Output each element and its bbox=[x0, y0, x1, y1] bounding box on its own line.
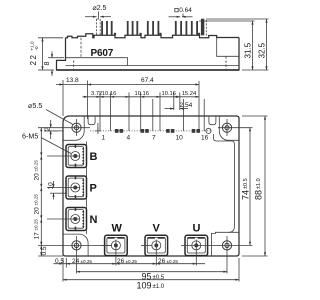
svg-text:8: 8 bbox=[44, 62, 51, 66]
svg-text:7: 7 bbox=[152, 135, 156, 142]
svg-text:2.54: 2.54 bbox=[180, 102, 193, 109]
svg-text:-0: -0 bbox=[34, 46, 39, 51]
svg-text:±0.5: ±0.5 bbox=[243, 178, 249, 189]
svg-text:±0.25: ±0.25 bbox=[34, 219, 39, 231]
svg-text:±1.0: ±1.0 bbox=[256, 178, 262, 189]
svg-text:10.16: 10.16 bbox=[102, 91, 117, 97]
svg-text:2: 2 bbox=[44, 127, 51, 131]
svg-text:0.64: 0.64 bbox=[179, 7, 192, 14]
svg-text:P607: P607 bbox=[91, 48, 114, 59]
svg-text:P: P bbox=[90, 183, 97, 195]
svg-text:±1.0: ±1.0 bbox=[153, 284, 165, 290]
svg-text:10: 10 bbox=[47, 182, 54, 190]
svg-text:17: 17 bbox=[34, 232, 41, 240]
svg-text:±0.25: ±0.25 bbox=[34, 160, 39, 172]
svg-text:16: 16 bbox=[201, 135, 209, 142]
svg-text:26: 26 bbox=[158, 258, 166, 265]
svg-text:67.4: 67.4 bbox=[141, 77, 154, 84]
svg-text:20: 20 bbox=[34, 173, 41, 181]
svg-text:±0.25: ±0.25 bbox=[81, 259, 93, 264]
svg-text:U: U bbox=[193, 223, 201, 235]
svg-text:10: 10 bbox=[176, 135, 184, 142]
svg-text:±0.25: ±0.25 bbox=[34, 194, 39, 206]
svg-text:24: 24 bbox=[72, 258, 80, 265]
svg-text:20: 20 bbox=[34, 207, 41, 215]
svg-text:109: 109 bbox=[137, 281, 152, 291]
svg-text:13.8: 13.8 bbox=[66, 77, 79, 84]
svg-text:±0.25: ±0.25 bbox=[126, 259, 138, 264]
svg-text:32.5: 32.5 bbox=[258, 42, 267, 58]
svg-text:15.24: 15.24 bbox=[182, 91, 197, 97]
svg-text:V: V bbox=[153, 223, 161, 235]
svg-text:26: 26 bbox=[117, 258, 125, 265]
svg-text:74: 74 bbox=[241, 190, 251, 200]
svg-text:88: 88 bbox=[253, 190, 263, 200]
svg-text:1: 1 bbox=[102, 135, 106, 142]
svg-text:4: 4 bbox=[127, 135, 131, 142]
svg-text:W: W bbox=[112, 223, 123, 235]
svg-text:⌀5.5: ⌀5.5 bbox=[28, 101, 42, 110]
svg-text:22: 22 bbox=[29, 54, 38, 66]
svg-text:B: B bbox=[90, 151, 98, 163]
svg-text:6-M5: 6-M5 bbox=[22, 132, 38, 141]
svg-text:±0.25: ±0.25 bbox=[167, 259, 179, 264]
svg-text:3.72: 3.72 bbox=[91, 91, 102, 97]
svg-text:0.5: 0.5 bbox=[41, 246, 48, 255]
svg-text:10.16: 10.16 bbox=[162, 91, 177, 97]
svg-text:31.5: 31.5 bbox=[244, 42, 253, 58]
svg-text:10.16: 10.16 bbox=[135, 91, 150, 97]
svg-text:⌀2.5: ⌀2.5 bbox=[93, 5, 107, 12]
svg-text:0.5: 0.5 bbox=[55, 258, 64, 265]
svg-text:N: N bbox=[90, 214, 98, 226]
